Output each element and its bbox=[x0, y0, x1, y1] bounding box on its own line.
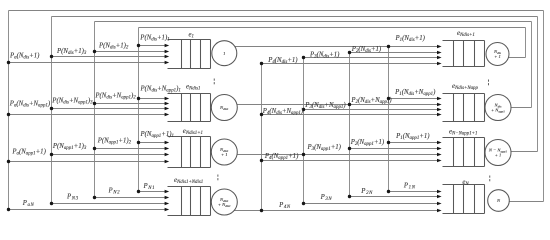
junction dot bus2 row3 left bbox=[93, 147, 96, 150]
junction dot mbus2 row1 right bbox=[348, 51, 351, 54]
wire into queue Ndis1 input 3 bbox=[52, 108, 166, 110]
server N-Napp1+1 bbox=[485, 140, 511, 166]
wire into queue Ndis1 input 4 bbox=[9, 114, 166, 116]
wire into queue Ndis+Napp1 input 1 bbox=[389, 98, 439, 100]
ellipsis between rows 3-4 right bbox=[488, 176, 491, 182]
wire into queue Ndis1+Ndis1 input 3 bbox=[52, 203, 166, 205]
wire server N output bbox=[509, 201, 543, 203]
wire top rail loop 2 (from server Ndis+Napp1) bbox=[95, 21, 532, 23]
wire into queue Ndis+1 input 2 bbox=[350, 52, 439, 54]
arrow into queue 1 input 1 bbox=[165, 44, 170, 48]
arrow into queue Ndis+Napp1 input 2 bbox=[437, 103, 442, 107]
wire into queue N input 1 bbox=[389, 191, 439, 193]
arrow into queue N input 4 bbox=[437, 209, 442, 213]
wire right riser x=537.5 bbox=[537, 17, 539, 152]
junction dot bus3 row4 left bbox=[50, 202, 53, 205]
junction dot mbus4 row2 right bbox=[260, 113, 263, 116]
wire top rail outer loop (from server N) bbox=[9, 10, 544, 12]
svg-text:1: 1 bbox=[223, 51, 225, 56]
arrow into queue Ndis+Napp1 input 1 bbox=[437, 97, 442, 101]
arrow into queue N-Napp1+1 input 4 bbox=[437, 159, 442, 163]
server Ndis1+1 bbox=[211, 139, 237, 165]
arrow into queue Ndis+Napp1 input 4 bbox=[437, 113, 442, 117]
queue Ndis+Napp1 bbox=[443, 94, 485, 122]
junction dot mbus4 row4 right bbox=[260, 209, 263, 212]
junction dot mbus3 row4 right bbox=[302, 202, 305, 205]
arrow into queue Ndis1+Ndis1 input 2 bbox=[165, 196, 170, 200]
queue 1 bbox=[168, 40, 211, 69]
wire top rail inner loop (from server Ndis+1) bbox=[139, 27, 526, 29]
arrow into queue Ndis+Napp1 input 3 bbox=[437, 108, 442, 112]
junction dot bus3 row3 left bbox=[50, 153, 53, 156]
junction dot bus2 row2 left bbox=[93, 102, 96, 105]
arrow into queue Ndis1 input 4 bbox=[165, 113, 170, 117]
svg-text:+ Napp1: + Napp1 bbox=[491, 108, 505, 114]
arrow into queue N input 1 bbox=[437, 190, 442, 194]
wire into queue Ndis1 input 1 bbox=[139, 98, 166, 100]
arrow into queue Ndis+1 input 4 bbox=[437, 62, 442, 66]
svg-text:+ 1: + 1 bbox=[495, 153, 502, 158]
server 1 bbox=[212, 41, 237, 66]
arrow into queue Ndis+1 input 2 bbox=[437, 51, 442, 55]
wire server N-Napp1+1 output bbox=[511, 151, 538, 153]
arrow into queue Ndis1+1 input 1 bbox=[165, 141, 170, 145]
ellipsis between rows 1-2 left bbox=[213, 79, 216, 85]
wire into queue N-Napp1+1 input 2 bbox=[350, 148, 439, 150]
wire into queue Ndis+Napp1 input 4 bbox=[262, 114, 439, 116]
svg-text:Ndis1: Ndis1 bbox=[219, 105, 229, 111]
wire into queue Ndis1+1 input 4 bbox=[9, 161, 166, 163]
arrow into queue Ndis+1 input 1 bbox=[437, 45, 442, 49]
junction dot mbus2 row3 right bbox=[348, 147, 351, 150]
server Ndis+1 bbox=[486, 43, 509, 66]
wire into queue Ndis1+Ndis1 input 2 bbox=[95, 197, 166, 199]
wire right riser x=525.5 bbox=[525, 28, 527, 58]
arrow into queue 1 input 3 bbox=[165, 55, 170, 59]
arrow into queue 1 input 4 bbox=[165, 61, 170, 65]
junction dot bus3 row2 left bbox=[50, 107, 53, 110]
wire into queue N-Napp1+1 input 4 bbox=[262, 160, 439, 162]
junction dot mbus4 row3 right bbox=[260, 159, 263, 162]
wire into queue Ndis1+1 input 2 bbox=[95, 148, 166, 150]
wire into queue Ndis1 input 2 bbox=[95, 103, 166, 105]
ellipsis between rows 3-4 left bbox=[217, 175, 220, 181]
junction dot bus2 row1 left bbox=[93, 50, 96, 53]
queue N-Napp1+1 bbox=[443, 138, 485, 167]
wire into queue Ndis+Napp1 input 3 bbox=[304, 109, 439, 111]
server N bbox=[488, 190, 510, 212]
junction dot bus1 row1 left bbox=[137, 44, 140, 47]
junction dot bus4 row3 left bbox=[7, 160, 10, 163]
wire left bus x=94.5 loop 2 (from server Ndis+Napp1) bbox=[94, 22, 96, 198]
queue Ndis1+1 bbox=[168, 137, 211, 168]
junction dot bus1 row2 left bbox=[137, 97, 140, 100]
arrow into queue Ndis1 input 2 bbox=[165, 102, 170, 106]
queue Ndis1+Ndis1 bbox=[168, 187, 211, 216]
arrow into queue Ndis1+1 input 4 bbox=[165, 160, 170, 164]
wire middle bus P2 x=349.5 bbox=[349, 53, 351, 197]
arrow into queue Ndis1+Ndis1 input 1 bbox=[165, 190, 170, 194]
queue Ndis+1 bbox=[443, 41, 485, 67]
wire into queue 1 input 3 bbox=[52, 56, 166, 58]
arrow into queue N-Napp1+1 input 1 bbox=[437, 141, 442, 145]
wire into queue N input 2 bbox=[350, 196, 439, 198]
wire left bus x=8.5 outer loop (from server N) bbox=[8, 11, 10, 210]
arrow into queue Ndis1+Ndis1 input 3 bbox=[165, 202, 170, 206]
wire into queue Ndis1+Ndis1 input 1 bbox=[139, 191, 166, 193]
junction dot bus2 row4 left bbox=[93, 196, 96, 199]
wire server Ndis+Napp1 output bbox=[511, 107, 532, 109]
wire into queue Ndis1+1 input 3 bbox=[52, 154, 166, 156]
wire into queue Ndis1+Ndis1 input 4 bbox=[9, 209, 166, 211]
junction dot bus4 row4 left bbox=[7, 208, 10, 211]
junction dot bus4 row1 left bbox=[7, 61, 10, 64]
wire server Ndis+1 output bbox=[508, 57, 525, 59]
wire server Ndis1+1 output to queue N-Napp1+1 bbox=[237, 154, 438, 156]
arrow into queue N input 3 bbox=[437, 202, 442, 206]
junction dot bus4 row2 left bbox=[7, 113, 10, 116]
arrow into queue Ndis+1 input 3 bbox=[437, 56, 442, 60]
wire right riser x=543.5 bbox=[543, 11, 545, 202]
wire into queue Ndis+1 input 3 bbox=[304, 57, 439, 59]
arrow into queue Ndis1+1 input 2 bbox=[165, 147, 170, 151]
junction dot mbus3 row3 right bbox=[302, 153, 305, 156]
junction dot mbus1 row3 right bbox=[387, 141, 390, 144]
junction dot bus1 row3 left bbox=[137, 141, 140, 144]
wire middle bus P1 x=388.5 bbox=[388, 47, 390, 192]
arrow into queue 1 input 2 bbox=[165, 50, 170, 54]
queue N bbox=[443, 185, 485, 214]
svg-text:+ 1: + 1 bbox=[221, 152, 228, 157]
wire into queue 1 input 2 bbox=[95, 51, 166, 53]
wire into queue Ndis1+1 input 1 bbox=[139, 142, 166, 144]
junction dot mbus2 row2 right bbox=[348, 103, 351, 106]
junction dot mbus3 row2 right bbox=[302, 108, 305, 111]
wire left bus x=51.5 loop 3 (from server N-Napp1+1) bbox=[51, 17, 53, 204]
arrow into queue N-Napp1+1 input 2 bbox=[437, 147, 442, 151]
junction dot bus3 row1 left bbox=[50, 55, 53, 58]
junction dot mbus3 row1 right bbox=[302, 56, 305, 59]
wire into queue Ndis+1 input 4 bbox=[262, 63, 439, 65]
wire middle bus P3 x=303.5 bbox=[303, 58, 305, 204]
wire into queue 1 input 4 bbox=[9, 62, 166, 64]
server Ndis+Napp1 bbox=[485, 95, 511, 121]
wire server Ndis1 output to queue Ndis+Napp1 bbox=[237, 104, 438, 106]
wire into queue N-Napp1+1 input 1 bbox=[389, 142, 439, 144]
svg-text:+ Ndis1: + Ndis1 bbox=[218, 202, 231, 208]
arrow into queue Ndis1 input 3 bbox=[165, 107, 170, 111]
queue Ndis1 bbox=[168, 94, 211, 122]
arrow into queue N input 2 bbox=[437, 195, 442, 199]
wire server 1 output to queue Ndis+1 bbox=[235, 46, 438, 48]
svg-text:+ 1: + 1 bbox=[494, 54, 501, 59]
junction dot mbus2 row4 right bbox=[348, 195, 351, 198]
arrow into queue Ndis1+1 input 3 bbox=[165, 153, 170, 157]
junction dot mbus1 row2 right bbox=[387, 97, 390, 100]
junction dot mbus1 row1 right bbox=[387, 45, 390, 48]
junction dot bus1 row4 left bbox=[137, 190, 140, 193]
arrow into queue Ndis1+Ndis1 input 4 bbox=[165, 208, 170, 212]
arrow into queue Ndis1 input 1 bbox=[165, 97, 170, 101]
junction dot mbus4 row1 right bbox=[260, 62, 263, 65]
wire top rail loop 3 (from server N-Napp1+1) bbox=[52, 16, 538, 18]
junction dot mbus1 row4 right bbox=[387, 190, 390, 193]
arrow into queue N-Napp1+1 input 3 bbox=[437, 153, 442, 157]
wire into queue N input 3 bbox=[304, 203, 439, 205]
server Ndis1 bbox=[211, 95, 237, 121]
wire middle bus P4 x=261.5 bbox=[261, 64, 263, 211]
wire into queue 1 input 1 bbox=[139, 45, 166, 47]
server Ndis1+Ndis1 bbox=[211, 189, 237, 215]
ellipsis between rows 1-2 right bbox=[487, 80, 490, 86]
wire right riser x=531.5 bbox=[531, 22, 533, 108]
wire left bus x=138.5 inner loop (from server Ndis+1) bbox=[138, 28, 140, 192]
wire server Ndis1+Ndis1 output to queue N bbox=[234, 210, 438, 212]
